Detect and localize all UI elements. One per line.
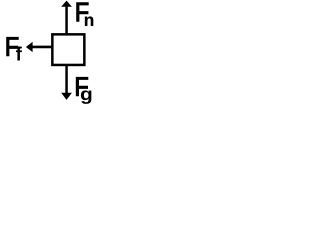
arrowhead: gravity force (down)	[61, 93, 72, 100]
free-body diagram of a box with three force arrows	[0, 0, 122, 107]
arrowhead: normal force (up)	[61, 1, 72, 7]
label F_n : F	[77, 3, 89, 21]
box (object)	[52, 34, 84, 65]
wire: gravity force arrow shaft	[65, 66, 68, 94]
label F_f : F	[7, 37, 19, 55]
label F_g : subscript g	[81, 90, 92, 104]
label F_g : F	[76, 77, 88, 95]
label F_n : subscript n	[85, 17, 93, 26]
label F_f : subscript f	[16, 47, 22, 61]
wire: normal force arrow shaft	[65, 6, 68, 34]
wire: friction force arrow shaft	[32, 46, 52, 49]
arrowhead: friction force (left)	[26, 42, 33, 52]
